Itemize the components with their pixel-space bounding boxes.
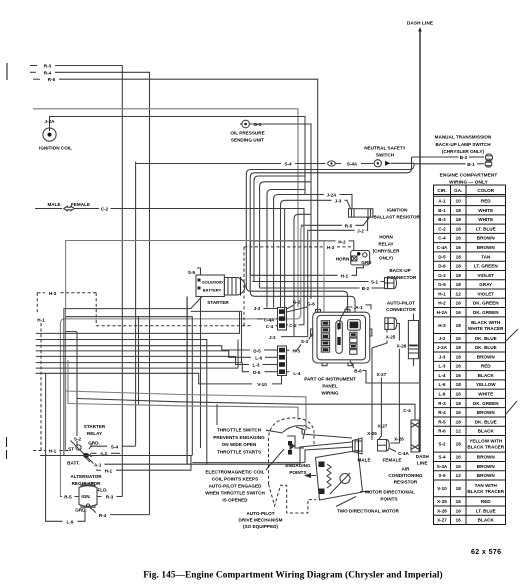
wire S-5 long run <box>40 455 192 457</box>
svg-text:Fig. 145—Engine Compartment Wi: Fig. 145—Engine Compartment Wiring Diagr… <box>143 570 442 581</box>
alternator regulator <box>75 483 108 512</box>
svg-text:J-2A: J-2A <box>437 345 448 350</box>
label L-4 pin <box>287 371 301 376</box>
svg-text:L-3: L-3 <box>439 364 446 369</box>
svg-text:J-2A: J-2A <box>44 119 55 124</box>
throttle switch mechanism <box>283 425 310 450</box>
svg-text:A-1: A-1 <box>355 305 363 310</box>
wire L-6 <box>36 351 278 361</box>
svg-text:16: 16 <box>456 373 462 378</box>
svg-text:J-2: J-2 <box>439 336 446 341</box>
svg-text:16: 16 <box>456 301 462 306</box>
wire C-4A bottom <box>390 449 414 457</box>
wire D-5 <box>36 346 278 354</box>
svg-text:COLOR: COLOR <box>477 188 494 193</box>
two directional motor box <box>316 451 363 501</box>
svg-text:R-4: R-4 <box>99 513 107 518</box>
leader electromagnetic coil <box>266 449 284 470</box>
svg-text:R-6: R-6 <box>438 429 446 434</box>
svg-text:IGNITION COIL: IGNITION COIL <box>39 146 72 151</box>
svg-text:G-6: G-6 <box>307 301 315 306</box>
svg-text:C-4: C-4 <box>403 408 411 413</box>
svg-text:YELLOW: YELLOW <box>476 382 496 387</box>
back-up lamp switch terminal B-1 <box>485 160 492 167</box>
svg-text:16: 16 <box>456 391 462 396</box>
wires into male plug <box>192 428 352 464</box>
svg-text:16: 16 <box>456 518 462 523</box>
svg-text:18: 18 <box>456 254 462 259</box>
wire to throttle switch <box>66 391 306 430</box>
svg-text:18: 18 <box>456 419 462 424</box>
svg-text:H-1: H-1 <box>341 274 349 279</box>
svg-text:ONLY): ONLY) <box>379 255 393 260</box>
svg-text:POINTS: POINTS <box>289 470 306 475</box>
wire R-3 <box>30 64 122 497</box>
svg-text:C-2: C-2 <box>101 207 109 212</box>
air conditioning resistor label <box>388 467 423 485</box>
neutral safety switch label <box>364 146 406 158</box>
svg-text:L-3: L-3 <box>253 363 260 368</box>
wire mesh lower <box>36 340 238 369</box>
svg-text:D-5: D-5 <box>438 254 446 259</box>
leader throttle switch <box>266 430 283 433</box>
svg-text:THROTTLE STARTS: THROTTLE STARTS <box>217 449 261 454</box>
svg-text:L-9: L-9 <box>67 520 74 525</box>
wire B-2 to connector <box>259 286 384 291</box>
svg-text:18: 18 <box>456 345 462 350</box>
svg-text:L-6: L-6 <box>255 356 262 361</box>
svg-text:X-25: X-25 <box>437 499 447 504</box>
wire J-2 feeder <box>294 214 311 336</box>
svg-text:H-1: H-1 <box>49 449 57 454</box>
wire C-4 long <box>77 399 415 421</box>
wire R-4 alternator <box>90 508 150 518</box>
svg-text:R-6: R-6 <box>48 77 56 82</box>
svg-text:WHITE: WHITE <box>478 391 493 396</box>
svg-text:RELAY: RELAY <box>87 431 102 436</box>
svg-text:BATT.: BATT. <box>67 461 80 466</box>
svg-text:18: 18 <box>456 323 462 328</box>
svg-text:16: 16 <box>456 455 462 460</box>
label C-4 pin <box>266 324 278 329</box>
auto-pilot drive mechanism label <box>239 511 283 529</box>
svg-text:R-3: R-3 <box>438 401 446 406</box>
air conditioning resistor <box>411 420 419 452</box>
svg-text:BROWN: BROWN <box>477 455 496 460</box>
svg-text:L-6: L-6 <box>439 382 446 387</box>
svg-text:BROWN: BROWN <box>477 410 496 415</box>
svg-text:R-5: R-5 <box>438 419 446 424</box>
svg-text:S-2: S-2 <box>438 442 446 447</box>
wire V-10 <box>36 373 282 387</box>
svg-text:12: 12 <box>456 473 462 478</box>
svg-text:16: 16 <box>456 336 462 341</box>
svg-text:S-4: S-4 <box>438 455 446 460</box>
svg-text:S-4: S-4 <box>284 162 292 167</box>
svg-text:L-9: L-9 <box>439 391 446 396</box>
svg-text:BALLAST RESISTOR: BALLAST RESISTOR <box>373 215 420 220</box>
svg-text:YELLOW WITH: YELLOW WITH <box>469 439 503 444</box>
svg-text:TAN WITH: TAN WITH <box>475 483 498 488</box>
svg-text:16: 16 <box>456 310 462 315</box>
svg-text:LT. BLUE: LT. BLUE <box>476 508 496 513</box>
starter relay <box>67 440 100 465</box>
wire J-2A stub <box>274 193 352 308</box>
svg-text:V-10: V-10 <box>437 486 447 491</box>
svg-text:GRD: GRD <box>361 260 372 265</box>
svg-text:AUTO-PILOT ENGAGED: AUTO-PILOT ENGAGED <box>209 483 263 488</box>
svg-text:AUTO-PILOT: AUTO-PILOT <box>387 300 415 305</box>
svg-text:B-1: B-1 <box>438 208 446 213</box>
wire X-25 <box>372 329 396 440</box>
svg-text:RED: RED <box>481 199 491 204</box>
wire R-5 <box>60 217 369 496</box>
svg-text:(CHRYSLER ONLY): (CHRYSLER ONLY) <box>442 149 485 154</box>
svg-text:S-4A: S-4A <box>437 464 448 469</box>
svg-text:X-27: X-27 <box>378 423 388 428</box>
label S-3 <box>296 333 313 352</box>
horn relay <box>336 251 373 266</box>
wire H-3 dashed <box>244 245 351 326</box>
svg-text:PREVENTS ENGAGING: PREVENTS ENGAGING <box>213 435 265 440</box>
svg-text:IS OPENED: IS OPENED <box>222 497 248 502</box>
electromagnetic coil label <box>205 469 265 502</box>
page edge marks <box>6 63 9 459</box>
svg-text:16: 16 <box>456 508 462 513</box>
wire battery cable from starter <box>186 297 188 465</box>
wire color table <box>434 185 506 525</box>
label H-3 pin <box>287 348 301 353</box>
svg-text:D-6: D-6 <box>438 264 446 269</box>
svg-text:TWO DIRECTIONAL MOTOR: TWO DIRECTIONAL MOTOR <box>337 508 400 513</box>
tall connector box on dash line <box>408 314 418 367</box>
wire X-27 <box>377 372 387 439</box>
svg-text:B-3: B-3 <box>438 217 446 222</box>
wire R-3 alternator <box>97 495 122 500</box>
svg-text:C-4A: C-4A <box>398 451 409 456</box>
svg-text:X-26: X-26 <box>394 436 404 441</box>
svg-text:RED: RED <box>481 499 491 504</box>
wire S-2 <box>66 332 82 442</box>
svg-text:G-6: G-6 <box>438 282 446 287</box>
svg-text:CONNECTOR: CONNECTOR <box>386 307 416 312</box>
svg-text:S-2: S-2 <box>74 436 82 441</box>
back-up lamp switch <box>485 154 492 161</box>
svg-text:ENGAGING: ENGAGING <box>285 463 311 468</box>
svg-text:D-5: D-5 <box>253 348 261 353</box>
connector strip J-3/C-4A/C-4 <box>278 308 287 331</box>
svg-text:18: 18 <box>456 282 462 287</box>
svg-text:18: 18 <box>456 217 462 222</box>
svg-text:DK. GREEN: DK. GREEN <box>473 301 499 306</box>
svg-text:18: 18 <box>456 264 462 269</box>
wire H-3 dashed left <box>37 291 251 326</box>
throttle switch label <box>213 428 265 455</box>
svg-text:H-1: H-1 <box>37 318 45 323</box>
engaging points contacts <box>288 441 292 455</box>
svg-text:H-3: H-3 <box>438 323 446 328</box>
svg-text:STARTER: STARTER <box>84 424 106 429</box>
connector strip D-5/L-6/L-3/D-6 <box>278 346 287 376</box>
svg-text:B-2: B-2 <box>362 286 370 291</box>
svg-text:MANUAL TRANSMISSION: MANUAL TRANSMISSION <box>435 134 492 139</box>
wire to J-3 pin <box>267 190 305 308</box>
svg-text:S-4: S-4 <box>111 444 119 449</box>
svg-text:D-6: D-6 <box>253 370 261 375</box>
svg-text:B-1: B-1 <box>467 162 475 167</box>
svg-text:DK. GREEN: DK. GREEN <box>473 401 499 406</box>
wire D-6 <box>36 363 278 375</box>
svg-text:DK. BLUE: DK. BLUE <box>475 345 497 350</box>
svg-text:WIRING: WIRING <box>321 391 339 396</box>
svg-text:62 x 576: 62 x 576 <box>471 549 501 556</box>
svg-text:THROTTLE SWITCH: THROTTLE SWITCH <box>217 428 262 433</box>
wire C-2 male female <box>35 202 304 325</box>
wire X-26 <box>391 324 407 444</box>
svg-text:SENDING UNIT: SENDING UNIT <box>231 138 264 143</box>
svg-text:COIL POINTS KEEPS: COIL POINTS KEEPS <box>212 476 258 481</box>
manual transmission back-up lamp switch label <box>435 134 492 154</box>
svg-text:H-2A: H-2A <box>437 310 448 315</box>
svg-text:ON WIDE OPEN: ON WIDE OPEN <box>222 442 257 447</box>
svg-text:(SO EQUIPPED): (SO EQUIPPED) <box>243 524 278 529</box>
svg-text:R-4: R-4 <box>44 70 52 75</box>
svg-text:S-4A: S-4A <box>347 162 358 167</box>
label C-2 pin <box>287 323 305 328</box>
svg-text:J-3: J-3 <box>335 199 342 204</box>
starter <box>196 275 245 305</box>
svg-text:GRAY: GRAY <box>479 282 492 287</box>
wire H-1 dashed <box>33 318 71 454</box>
svg-text:B-2: B-2 <box>460 155 468 160</box>
svg-text:C-4A: C-4A <box>264 317 275 322</box>
wire R-4 <box>30 70 150 514</box>
wire B-1 to connector <box>253 280 385 285</box>
svg-text:WHITE: WHITE <box>478 208 493 213</box>
svg-text:SWITCH: SWITCH <box>376 153 395 158</box>
svg-text:X-25: X-25 <box>386 335 396 340</box>
svg-text:NEUTRAL SAFETY: NEUTRAL SAFETY <box>364 146 406 151</box>
svg-text:18: 18 <box>456 486 462 491</box>
svg-text:PART OF INSTRUMENT: PART OF INSTRUMENT <box>304 377 356 382</box>
svg-text:18: 18 <box>456 226 462 231</box>
wire from starter to left <box>64 297 202 456</box>
wire B-1 <box>414 162 484 167</box>
auto-pilot connector barrel <box>385 318 397 330</box>
svg-text:BLACK TRACER: BLACK TRACER <box>467 445 504 450</box>
svg-text:G-2: G-2 <box>438 273 446 278</box>
svg-text:S-5: S-5 <box>188 270 196 275</box>
svg-text:C-4A: C-4A <box>437 245 448 250</box>
table leader diagonals <box>506 329 518 414</box>
svg-text:IGN.: IGN. <box>81 494 91 499</box>
svg-text:DRIVE MECHANISM: DRIVE MECHANISM <box>239 518 283 523</box>
svg-text:SOLENOID: SOLENOID <box>202 279 223 284</box>
svg-text:LINE: LINE <box>417 460 428 465</box>
svg-text:FEMALE: FEMALE <box>382 458 401 463</box>
svg-text:BACK-UP LAMP SWITCH: BACK-UP LAMP SWITCH <box>435 142 491 147</box>
female connector <box>378 440 402 463</box>
svg-text:HORN: HORN <box>336 257 350 262</box>
wire S-4A <box>347 162 374 167</box>
svg-text:C-2: C-2 <box>289 323 297 328</box>
label G-2 <box>287 299 301 309</box>
two directional motor label <box>336 497 400 514</box>
wire H-1 horn feed <box>250 265 363 279</box>
dash line <box>418 27 422 452</box>
ignition ballast resistor <box>349 208 421 220</box>
svg-text:DK. BLUE: DK. BLUE <box>475 419 497 424</box>
svg-text:DASH: DASH <box>416 454 430 459</box>
svg-text:MALE: MALE <box>357 458 370 463</box>
svg-text:BLACK: BLACK <box>478 518 495 523</box>
svg-text:16: 16 <box>456 364 462 369</box>
svg-text:WHEN THROTTLE SWITCH: WHEN THROTTLE SWITCH <box>205 490 265 495</box>
wire R-6 <box>33 77 318 312</box>
svg-text:X-26: X-26 <box>397 343 407 348</box>
svg-text:FEMALE: FEMALE <box>71 202 90 207</box>
wire L-3 <box>36 356 278 367</box>
back-up connector label <box>387 268 417 280</box>
svg-text:BLACK WITH: BLACK WITH <box>471 320 501 325</box>
svg-text:18: 18 <box>456 354 462 359</box>
svg-text:R-5: R-5 <box>345 224 353 229</box>
svg-text:X-25: X-25 <box>367 431 377 436</box>
wire H-1 relay <box>96 456 191 474</box>
ignition coil <box>39 119 72 151</box>
svg-text:16: 16 <box>456 236 462 241</box>
wire starter feed <box>66 317 193 456</box>
horn relay label <box>373 234 400 260</box>
svg-text:A-1: A-1 <box>94 462 102 467</box>
svg-text:CONDITIONING: CONDITIONING <box>388 473 423 478</box>
svg-text:J-3: J-3 <box>254 306 261 311</box>
svg-text:18: 18 <box>456 208 462 213</box>
svg-text:18: 18 <box>456 273 462 278</box>
svg-text:BROWN: BROWN <box>477 236 496 241</box>
svg-text:ELECTROMAGNETIC COIL: ELECTROMAGNETIC COIL <box>205 469 264 474</box>
svg-text:S-5: S-5 <box>438 473 446 478</box>
svg-text:GRD.: GRD. <box>88 440 100 445</box>
svg-text:R-3: R-3 <box>44 64 52 69</box>
wire H-2 <box>250 240 353 276</box>
svg-text:L-4: L-4 <box>293 371 300 376</box>
motor directional points label <box>360 490 415 502</box>
svg-text:16: 16 <box>456 499 462 504</box>
svg-text:DK. BLUE: DK. BLUE <box>475 336 497 341</box>
svg-text:18: 18 <box>456 401 462 406</box>
wire L-9 <box>46 373 85 524</box>
oil pressure sending unit <box>230 120 264 142</box>
wire C-4A feeder <box>284 209 286 319</box>
wire to coil <box>68 360 298 420</box>
svg-text:GA.: GA. <box>454 188 462 193</box>
svg-text:H-1: H-1 <box>105 468 113 473</box>
directional arrow <box>304 473 316 478</box>
label J-3 pin <box>254 306 278 311</box>
svg-text:FLD.: FLD. <box>97 488 107 493</box>
svg-text:C-4: C-4 <box>266 324 274 329</box>
svg-text:A-1: A-1 <box>438 199 446 204</box>
svg-text:16: 16 <box>456 410 462 415</box>
svg-text:R-5: R-5 <box>64 495 72 500</box>
svg-text:12: 12 <box>456 291 462 296</box>
svg-text:S-3: S-3 <box>301 339 309 344</box>
wire S-5 starter <box>188 268 201 448</box>
male connector <box>353 438 371 463</box>
label G-6 <box>287 301 316 312</box>
svg-text:X-27: X-27 <box>377 372 387 377</box>
svg-text:10: 10 <box>456 199 462 204</box>
svg-text:BLACK: BLACK <box>478 429 495 434</box>
svg-text:POINTS: POINTS <box>380 497 397 502</box>
svg-text:MOTOR DIRECTIONAL: MOTOR DIRECTIONAL <box>365 490 415 495</box>
auto-pilot mechanism dashed outline <box>269 418 317 513</box>
svg-text:BROWN: BROWN <box>477 473 496 478</box>
svg-text:R-4: R-4 <box>438 410 446 415</box>
svg-text:STARTER: STARTER <box>207 300 229 305</box>
svg-text:G-2: G-2 <box>293 299 301 304</box>
svg-text:C-4: C-4 <box>438 236 446 241</box>
svg-text:X-26: X-26 <box>437 508 447 513</box>
svg-text:J-2: J-2 <box>357 229 364 234</box>
wire J-2A from ignition coil <box>50 117 306 195</box>
svg-text:H-2: H-2 <box>438 301 446 306</box>
svg-text:ST: ST <box>68 446 74 451</box>
svg-text:DASH LINE: DASH LINE <box>407 21 433 26</box>
part of instrument panel wiring label <box>304 377 356 396</box>
svg-text:OIL PRESSURE: OIL PRESSURE <box>230 131 264 136</box>
svg-text:IGNITION: IGNITION <box>387 208 408 213</box>
label C-4A pin <box>257 317 278 322</box>
wire S-4 relay <box>90 444 136 449</box>
wire R-5 alternator <box>60 495 79 500</box>
wire to engaging area <box>36 340 207 465</box>
svg-text:H-3: H-3 <box>49 291 57 296</box>
svg-text:BACK-UP: BACK-UP <box>389 268 410 273</box>
svg-text:LT. BLUE: LT. BLUE <box>476 226 496 231</box>
svg-text:V-10: V-10 <box>257 382 267 387</box>
auto-pilot connector label <box>386 300 416 312</box>
svg-text:DK. GREEN: DK. GREEN <box>473 310 499 315</box>
svg-text:X-27: X-27 <box>437 518 447 523</box>
svg-text:H-3: H-3 <box>327 245 335 250</box>
svg-text:TAN: TAN <box>481 254 491 259</box>
wire branch <box>138 317 140 405</box>
instrument panel connector <box>311 310 372 366</box>
svg-text:R-3: R-3 <box>106 495 114 500</box>
svg-text:RED: RED <box>481 364 491 369</box>
svg-text:BROWN: BROWN <box>477 354 496 359</box>
svg-text:LT. GREEN: LT. GREEN <box>474 264 498 269</box>
svg-text:WIRING — ONLY: WIRING — ONLY <box>449 180 488 185</box>
svg-text:BROWN: BROWN <box>477 464 496 469</box>
svg-text:MALE: MALE <box>47 202 60 207</box>
wire from switch up-over to B lines <box>246 157 414 312</box>
svg-text:ALTERNATOR: ALTERNATOR <box>70 474 102 479</box>
svg-text:WHITE TRACER: WHITE TRACER <box>468 326 504 331</box>
svg-text:VIOLET: VIOLET <box>477 273 494 278</box>
neutral safety switch <box>374 160 414 167</box>
svg-text:RELAY: RELAY <box>378 241 393 246</box>
svg-text:PANEL: PANEL <box>322 384 338 389</box>
wire mesh upper <box>36 311 240 333</box>
svg-text:12: 12 <box>456 429 462 434</box>
wire S-5 relay <box>91 452 120 457</box>
svg-text:18: 18 <box>456 442 462 447</box>
svg-text:B-6: B-6 <box>354 368 362 373</box>
wire G-2 long run <box>33 109 298 307</box>
